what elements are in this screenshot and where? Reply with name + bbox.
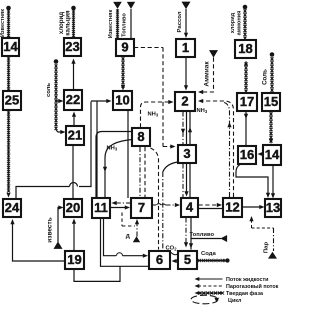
- block 19: [65, 251, 84, 269]
- wire dash-dot line block 3 to block 4: [182, 164, 184, 198]
- block 5: [178, 251, 197, 269]
- salt feed terminal dot: [54, 59, 59, 64]
- svg-text:15: 15: [264, 94, 278, 109]
- block 7: [131, 198, 152, 218]
- svg-text:18: 18: [238, 41, 252, 56]
- wire line block 3 lower-left corner down to block 6 top: [163, 162, 178, 250]
- wire dashed line block 8 bottom to block 7 top: [144, 147, 146, 197]
- svg-text:NH3: NH3: [148, 112, 159, 118]
- label хлорид (of хлорид аммония): [230, 12, 236, 33]
- svg-text:Цикл: Цикл: [228, 298, 242, 304]
- wire liquid line block 2 to block 3: [186, 112, 188, 145]
- wire block 14 lower to block 16 with left arrow: [258, 152, 264, 156]
- label Пар (steam): [264, 242, 270, 254]
- svg-text:Соль: Соль: [262, 69, 269, 85]
- label Рассол (brine): [177, 11, 183, 32]
- wire curved line block 8 left to block 11 top with arrow: [103, 140, 133, 198]
- block 3: [178, 145, 196, 163]
- svg-text:Твердая фаза: Твердая фаза: [226, 290, 264, 297]
- svg-text:9: 9: [121, 39, 128, 54]
- wire recycle header from (91,101) down and left into block 24 top: [16, 102, 91, 199]
- steam inlet terminal triangle: [268, 252, 277, 259]
- wire steam dash-dot from terminal up to hook: [136, 226, 138, 237]
- svg-text:аммония: аммония: [237, 11, 243, 36]
- svg-text:7: 7: [138, 200, 145, 215]
- svg-text:Пар: Пар: [264, 242, 270, 254]
- solid-phase feed terminal (limestone inlet dot): [6, 6, 11, 11]
- fuel inlet terminal triangle at kiln: [127, 2, 135, 9]
- wire dashed steam line with up arrow below blocks 12 and 13: [249, 216, 273, 228]
- wire liquid line block 12 to block 13 with arrow: [243, 205, 265, 209]
- label NH3 on absorber feed line: [148, 112, 159, 118]
- svg-text:19: 19: [67, 252, 81, 267]
- wire liquid line block 4 to block 12: [199, 208, 224, 210]
- svg-text:1: 1: [182, 40, 189, 55]
- wire dash-dot line block 4 to block 5 with arrow: [184, 218, 188, 248]
- limestone inlet terminal triangle at kiln: [113, 2, 122, 9]
- svg-text:известь: известь: [47, 217, 54, 242]
- block 4: [181, 198, 198, 217]
- label соль (salt): [46, 83, 52, 97]
- block 17: [237, 93, 257, 111]
- wire fuel line into block 9: [130, 9, 132, 38]
- wire limestone solid-phase line into block 14: [7, 10, 10, 40]
- label NH3 right of absorber: [197, 108, 208, 114]
- steam inlet terminal triangle below block 7: [133, 236, 140, 242]
- block 23: [64, 38, 81, 56]
- wire CO2 arc between block 6 and block 5 tops: [170, 252, 179, 255]
- wire vertical line down into block 11 top: [96, 101, 98, 197]
- block 18: [235, 40, 256, 58]
- cycle dashed hook under block 7: [122, 213, 135, 227]
- svg-text:6: 6: [156, 252, 163, 267]
- wire liquid line block 11 to block 7: [110, 205, 130, 209]
- block 14: [2, 38, 19, 56]
- block 22: [64, 90, 82, 110]
- svg-text:NH3: NH3: [107, 146, 118, 152]
- block 10: [113, 91, 132, 110]
- wire dash-dot line block 7 to block 4 with hops: [153, 203, 181, 207]
- block 6: [149, 251, 170, 269]
- wire dash-dot line block 8 bottom to block 7 top: [139, 147, 141, 197]
- wire dashed line block 4 to block 12 with arrow: [199, 203, 223, 207]
- svg-text:Аммиак: Аммиак: [204, 61, 211, 87]
- label Известняк at kiln: [108, 10, 114, 39]
- label CO2 at block 6 inlet: [166, 246, 178, 252]
- wire brine line into block 1: [184, 9, 188, 38]
- wire NH3 return dashed line from block 12 up into block 2: [198, 99, 234, 197]
- block 15: [262, 93, 280, 111]
- svg-text:хлорид: хлорид: [230, 12, 236, 33]
- wire liquid line into block 10 left: [91, 99, 112, 103]
- legend label Цикл: [228, 298, 242, 304]
- wire salt solid-phase line into blocks 22 and 21: [55, 64, 66, 134]
- wire block 21 to block 22: [72, 112, 76, 127]
- wire solid-phase line block 15 to block 14 lower with arrow: [269, 112, 273, 144]
- svg-text:соль: соль: [46, 83, 52, 97]
- block 20: [64, 199, 82, 217]
- svg-text:23: 23: [65, 39, 79, 54]
- svg-text:22: 22: [66, 92, 80, 107]
- wire dash-dot line block 7 to block 11 with arrow: [112, 201, 132, 205]
- svg-text:14: 14: [3, 39, 18, 54]
- soda product terminal dot: [225, 258, 229, 262]
- svg-text:кальция: кальция: [65, 10, 72, 36]
- wire block 16 bottom route into block 13 top: [236, 165, 270, 199]
- salt feed terminal dot right: [270, 52, 275, 57]
- wire block 19 left to block 24 bottom: [10, 219, 65, 261]
- block 21: [66, 126, 84, 145]
- svg-text:14: 14: [265, 147, 280, 162]
- block 12: [223, 198, 242, 217]
- svg-text:25: 25: [5, 92, 19, 107]
- label кальция (of хлорид кальция): [65, 10, 72, 36]
- fuel inlet terminal triangle at block 5: [220, 235, 227, 242]
- block 9: [116, 39, 134, 56]
- label Соль (salt, right): [262, 69, 269, 85]
- wire line block 8 upper-left corner to block 11 top: [96, 132, 133, 198]
- wire ammonium-chloride solid-phase line above block 18: [243, 9, 246, 40]
- label Топливо at block 5: [190, 232, 215, 238]
- svg-text:13: 13: [266, 200, 280, 215]
- wire NH3 return dash-dot line from block 12 with up arrow: [224, 103, 232, 198]
- wire NH3 gas dashed line block 8 up and right into block 2: [141, 100, 174, 128]
- wire second line block 11 bottom down to lower header: [101, 219, 149, 267]
- svg-text:Рассол: Рассол: [177, 11, 183, 32]
- wire gas line block 3 to block 2 with up arrow: [188, 112, 192, 145]
- wire block 14 lower down into block 13: [271, 166, 275, 199]
- wire solid-phase line block 17 to block 18 with up arrow: [244, 61, 248, 93]
- product terminal dot (calcium chloride outlet): [71, 6, 76, 11]
- label Известняк (limestone): [0, 9, 6, 37]
- wire line block 17 to block 16 with down arrow: [244, 112, 248, 146]
- wire salt solid-phase line into block 15: [270, 57, 273, 92]
- svg-text:Топливо: Топливо: [190, 232, 215, 238]
- svg-text:д: д: [126, 233, 130, 240]
- svg-text:24: 24: [5, 200, 20, 215]
- wire block 19 to block 20: [72, 219, 76, 252]
- svg-text:2: 2: [181, 93, 188, 108]
- wire block 19 bottom loop joining lower header: [74, 266, 120, 281]
- label Аммиак (ammonia): [204, 61, 211, 87]
- block 14 (lower right): [263, 145, 281, 165]
- svg-text:NH3: NH3: [197, 108, 208, 114]
- wire ammonia dashed line into block 2 right: [198, 58, 214, 95]
- block 16: [238, 146, 256, 164]
- svg-text:16: 16: [240, 147, 254, 162]
- block 1: [176, 39, 195, 57]
- block 24: [3, 199, 21, 217]
- svg-text:17: 17: [240, 94, 254, 109]
- svg-text:Поток жидкости: Поток жидкости: [226, 277, 268, 283]
- svg-text:5: 5: [184, 252, 191, 267]
- wire steam dash-dot line down to terminal: [273, 228, 275, 251]
- wire CO2 gas dashed line block 9 to block 3: [134, 48, 176, 149]
- wire liquid line block 4 to block 5: [190, 218, 192, 250]
- svg-text:Сода: Сода: [201, 251, 217, 257]
- svg-text:4: 4: [186, 199, 194, 214]
- svg-text:3: 3: [183, 146, 190, 161]
- svg-text:Известняк: Известняк: [108, 10, 114, 39]
- label аммония (of хлорид аммония): [237, 11, 243, 36]
- block 11: [92, 198, 110, 218]
- block 2: [175, 92, 195, 111]
- svg-text:12: 12: [225, 199, 239, 214]
- ammonium chloride outlet terminal dot: [243, 5, 248, 10]
- wire calcium-chloride solid-phase line from block 23 up: [72, 10, 75, 37]
- legend label Твердая фаза: [226, 290, 264, 297]
- svg-text:Топливо: Топливо: [122, 13, 128, 37]
- block 13: [265, 199, 281, 217]
- wire line block 1 to block 2: [184, 57, 188, 91]
- wire liquid line block 11 bottom to block 6 left: [104, 219, 149, 258]
- label NH3 on recovery loop: [107, 146, 118, 152]
- wire liquid line block 3 to block 4 with arrow: [184, 164, 188, 197]
- wire lime-water line into block 20 left: [58, 205, 64, 242]
- svg-text:8: 8: [137, 129, 144, 144]
- legend solid-phase line: [195, 291, 225, 295]
- wire block 21 down to block 20 (crossing hop): [72, 145, 74, 199]
- svg-text:Парогазовый поток: Парогазовый поток: [226, 283, 279, 290]
- block 8: [132, 128, 150, 146]
- label хлорид (of хлорид кальция): [58, 12, 65, 34]
- legend cycle ellipse symbol: [191, 295, 220, 304]
- label at purge triangle: [126, 233, 130, 240]
- svg-text:Известняк: Известняк: [0, 9, 6, 37]
- svg-text:21: 21: [68, 127, 82, 142]
- wire block 22 to block 23: [71, 59, 75, 91]
- wire limestone solid-phase line into block 9: [116, 9, 119, 40]
- wire dash-dot line block 2 to block 3 with down arrow: [181, 112, 185, 145]
- ammonia inlet terminal triangle: [209, 50, 218, 58]
- wire liquid line block 5 to block 6 with arrow: [172, 259, 179, 263]
- wire solid-phase line block 14 to block 25: [7, 57, 10, 92]
- wire third line block 3 to block 4: [189, 164, 191, 198]
- wire dashed line block 8 lower-right down to block 6 top: [151, 148, 159, 250]
- legend label Парогазовый поток: [226, 283, 279, 290]
- legend label Поток жидкости: [226, 277, 268, 283]
- wire steam line up into block 7 bottom with arrow: [135, 219, 139, 226]
- wire fuel line into block 5 top: [189, 239, 221, 249]
- label известь (lime water feed): [47, 217, 54, 242]
- label Топливо at kiln: [122, 13, 128, 37]
- svg-text:20: 20: [66, 200, 80, 215]
- brine inlet terminal triangle: [182, 2, 191, 10]
- wire solid-phase line block 25 down to block 24: [7, 111, 11, 198]
- legend vapor-gas dashed line: [195, 284, 223, 288]
- wire solid-phase line block 9 to block 10 (lime): [121, 57, 125, 91]
- wire lime milk line block 10 down to block 7: [127, 110, 129, 198]
- svg-text:10: 10: [115, 92, 129, 107]
- lime-water inlet terminal triangle: [54, 241, 63, 249]
- block 25: [3, 91, 21, 110]
- label Сода (soda product): [201, 251, 217, 257]
- legend liquid-flow line: [195, 277, 223, 281]
- svg-text:11: 11: [94, 200, 108, 215]
- soda product solid-phase line from block 5: [198, 259, 227, 262]
